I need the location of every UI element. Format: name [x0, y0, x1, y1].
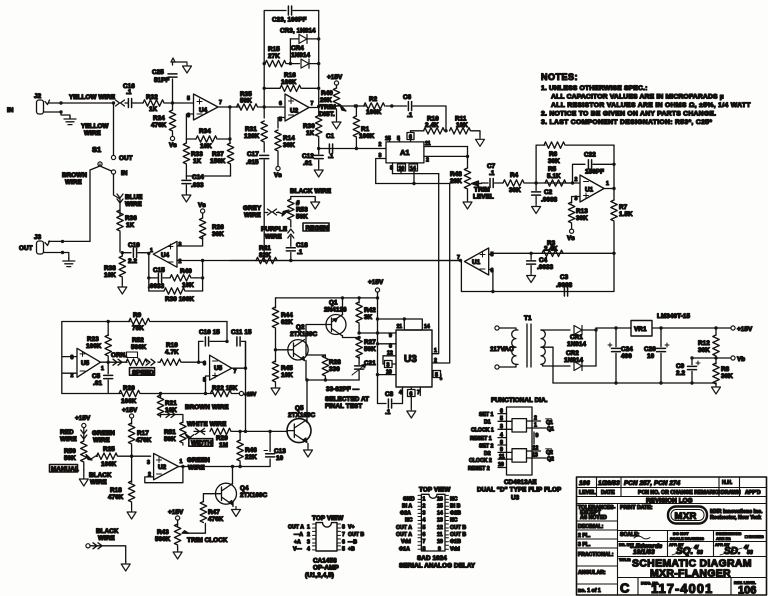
wire U2 pin5 — [278, 118, 285, 129]
label select cap — [325, 386, 369, 410]
sad pins right — [437, 495, 466, 552]
svg-text:+A: +A — [294, 540, 301, 546]
svg-text:2: 2 — [71, 373, 74, 379]
sad pins left — [396, 495, 426, 552]
svg-text:GREY: GREY — [243, 205, 262, 212]
svg-text:30K: 30K — [212, 231, 224, 238]
node C16 branch — [112, 101, 115, 104]
svg-text:BROWN: BROWN — [62, 172, 87, 179]
terminal Vs R13 — [567, 229, 575, 242]
svg-text:CR1: CR1 — [570, 334, 583, 341]
resistor R21 — [157, 394, 177, 418]
svg-text:30K: 30K — [283, 142, 295, 149]
svg-text:IN: IN — [121, 170, 128, 177]
resistor R4 — [503, 172, 536, 194]
label black wire bottom — [96, 528, 119, 542]
svg-text:R52: R52 — [132, 337, 144, 344]
pin 3 A1 — [376, 153, 386, 184]
IC U3 — [396, 330, 432, 387]
svg-text:150K: 150K — [210, 158, 226, 165]
svg-text:R49: R49 — [321, 90, 333, 97]
svg-text:.015: .015 — [246, 159, 259, 166]
svg-text:NC: NC — [450, 518, 458, 524]
resistor R47 — [200, 502, 224, 524]
trimpot R50 — [64, 441, 97, 470]
svg-text:Q2: Q2 — [547, 457, 554, 463]
resistor R41 — [256, 245, 277, 264]
label black wire manual — [89, 472, 112, 486]
wire black to pot — [291, 197, 315, 202]
resistor R45 — [272, 350, 293, 385]
svg-text:BLACK WIRE: BLACK WIRE — [290, 188, 331, 195]
svg-text:NOTES:: NOTES: — [541, 72, 578, 82]
tb rev headers — [579, 490, 761, 496]
label MANUAL — [50, 465, 79, 474]
jack J3 — [19, 234, 50, 254]
svg-text:R5: R5 — [548, 166, 557, 173]
node bus bracket — [376, 317, 379, 320]
svg-text:IN A: IN A — [402, 504, 412, 510]
wire sleeve J3 — [44, 253, 69, 260]
svg-text:1: 1 — [534, 423, 537, 429]
fd pin9 stub — [534, 432, 539, 444]
svg-text:5: 5 — [435, 373, 438, 379]
capacitor C6 — [392, 94, 446, 131]
capacitor C22 — [584, 152, 614, 176]
resistor R25 — [97, 446, 151, 468]
capacitor C13 — [240, 431, 286, 466]
capacitor C23 — [272, 6, 319, 24]
svg-text:R2: R2 — [369, 96, 378, 103]
svg-text:R6: R6 — [549, 151, 558, 158]
svg-text:1.5K: 1.5K — [619, 211, 633, 218]
svg-text:14: 14 — [410, 166, 416, 172]
resistor R19 — [158, 342, 206, 365]
terminal Vs R26 — [198, 202, 206, 213]
svg-text:ALL RESISTOR VALUES ARE IN OHM: ALL RESISTOR VALUES ARE IN OHMS Ω, ±5%, … — [551, 102, 751, 109]
svg-text:C17: C17 — [247, 151, 259, 158]
svg-text:CR2: CR2 — [566, 350, 579, 357]
resistor R13 — [568, 202, 588, 229]
ground U3 — [407, 408, 416, 418]
pin 6 U3 — [408, 387, 416, 408]
op-amp U1b — [457, 248, 494, 275]
node H2 pin14 — [412, 182, 415, 185]
wire R32 to U4 — [165, 102, 194, 104]
svg-text:R36: R36 — [125, 215, 137, 222]
svg-text:Q5: Q5 — [295, 405, 304, 412]
svg-text:WIRE: WIRE — [125, 201, 142, 208]
svg-text:11: 11 — [499, 454, 505, 460]
connector blue chev — [117, 194, 123, 203]
label purple wire — [261, 226, 287, 241]
svg-text:C8: C8 — [385, 391, 394, 398]
svg-text:ORN.: ORN. — [111, 352, 127, 359]
tb rev entries — [579, 480, 733, 487]
pin 8 A1 — [390, 163, 393, 174]
svg-text:11: 11 — [425, 141, 431, 147]
label brown wire — [62, 172, 87, 186]
svg-text:C23, 100PF: C23, 100PF — [272, 17, 307, 24]
jack J2 — [7, 93, 50, 114]
pin 6 A1 — [407, 131, 414, 142]
ground Q5 — [304, 444, 313, 458]
svg-text:1: 1 — [101, 366, 104, 372]
svg-text:TRIM: TRIM — [320, 104, 336, 111]
svg-text:SD.: SD. — [724, 546, 741, 557]
svg-text:.0033: .0033 — [537, 264, 554, 271]
tb left col — [577, 504, 618, 596]
wire purple to pot — [290, 221, 292, 227]
svg-text:+15V: +15V — [122, 407, 138, 414]
svg-text:C13: C13 — [274, 448, 286, 455]
svg-text:8: 8 — [500, 440, 503, 446]
pin 2 A1 left — [379, 142, 382, 148]
C23 box left wire — [264, 11, 286, 108]
capacitor C21 — [352, 360, 376, 380]
svg-text:100K: 100K — [86, 343, 102, 350]
wire fb verticals — [149, 254, 203, 292]
node U1b out — [459, 259, 462, 262]
node CR4 right — [317, 62, 320, 65]
svg-text:OUT A: OUT A — [396, 532, 412, 538]
svg-text:TITLE:: TITLE: — [619, 558, 631, 562]
wire CR3 branch — [289, 39, 291, 64]
svg-text:R40: R40 — [180, 268, 192, 275]
svg-text:TRIM: TRIM — [474, 187, 490, 194]
svg-text:30K: 30K — [548, 158, 560, 165]
svg-text:Q2: Q2 — [296, 324, 305, 331]
svg-text:WIRE: WIRE — [90, 479, 107, 486]
node R46 bottom — [238, 465, 241, 468]
svg-text:DECIMAL:: DECIMAL: — [578, 524, 604, 530]
wire pin5 — [206, 376, 210, 394]
svg-text:IN: IN — [7, 107, 14, 114]
wire sleeve J2 — [44, 112, 71, 118]
svg-text:VR1: VR1 — [634, 326, 647, 333]
logo MXR — [668, 507, 707, 524]
svg-text:REGEN: REGEN — [306, 225, 329, 232]
svg-text:150PF: 150PF — [585, 169, 604, 176]
terminal Vs R14 — [274, 166, 282, 179]
svg-text:4: 4 — [399, 390, 402, 396]
svg-text:□ INCHES: □ INCHES — [745, 534, 764, 539]
svg-text:C2: C2 — [544, 189, 553, 196]
svg-text:U4: U4 — [199, 107, 208, 114]
svg-text:100K: 100K — [101, 461, 117, 468]
svg-text:1: 1 — [307, 525, 310, 531]
svg-text:2TX109C: 2TX109C — [288, 412, 316, 419]
node CR join — [594, 328, 597, 331]
wire S1 common brown — [90, 164, 100, 241]
svg-text:U5: U5 — [214, 365, 223, 372]
pin 8 U3 — [376, 342, 396, 349]
node U4a out — [228, 105, 231, 108]
svg-text:OUT: OUT — [19, 245, 33, 252]
ground R43 — [173, 549, 182, 559]
ground C12 — [314, 167, 323, 177]
svg-text:6: 6 — [342, 540, 345, 546]
svg-text:470K: 470K — [151, 122, 167, 129]
svg-text:BLUE: BLUE — [125, 194, 143, 201]
label blue wire — [125, 194, 143, 208]
node R23 top — [107, 320, 110, 323]
svg-text:Vs: Vs — [567, 235, 575, 242]
svg-text:62K: 62K — [281, 319, 293, 326]
svg-text:PURPLE: PURPLE — [261, 226, 287, 233]
svg-text:3: 3 — [147, 460, 150, 466]
ground R18 — [127, 509, 136, 519]
svg-text:16K: 16K — [165, 407, 177, 414]
svg-text:OUT B: OUT B — [450, 532, 466, 538]
svg-text:PCN NO. OR CHANGE REMARKS: PCN NO. OR CHANGE REMARKS — [638, 490, 721, 496]
diode CR3 — [290, 34, 318, 43]
node U1a out — [612, 187, 615, 190]
resistor R35 — [237, 91, 258, 110]
diode CR2 — [564, 350, 596, 371]
svg-text:R37: R37 — [212, 151, 224, 158]
capacitor C24 — [608, 328, 633, 383]
svg-text:1/20/83: 1/20/83 — [598, 480, 620, 487]
wire R27 bottom — [358, 357, 360, 362]
svg-text:J3: J3 — [34, 234, 42, 241]
node C20 — [659, 326, 662, 329]
svg-text:Q1: Q1 — [329, 300, 338, 307]
capacitor C7 — [482, 163, 503, 188]
node C17 rail — [263, 259, 266, 262]
resistor R7 — [611, 200, 633, 253]
capacitor C20 — [644, 328, 669, 383]
resistor R12 — [698, 328, 719, 358]
svg-text:3: 3 — [500, 424, 503, 430]
node R29 out — [244, 430, 247, 433]
svg-text:500K: 500K — [155, 536, 171, 543]
node U1a pin2 — [571, 181, 574, 184]
resistor R22 — [210, 385, 239, 397]
svg-text:FINAL TEST: FINAL TEST — [325, 403, 362, 410]
svg-text:SCALE:: SCALE: — [620, 532, 640, 538]
ground R48 — [463, 199, 472, 209]
svg-text:GND: GND — [403, 497, 415, 503]
svg-text:C20: C20 — [644, 346, 656, 353]
capacitor C19 — [122, 242, 148, 265]
node R21 — [159, 392, 162, 395]
ca pins left — [288, 524, 316, 553]
wire C10 up — [199, 341, 203, 362]
svg-text:FUNCTIONAL DIA.: FUNCTIONAL DIA. — [491, 397, 548, 404]
node R24 — [171, 101, 174, 104]
op-amp U2 — [279, 94, 314, 123]
svg-text:WIRE: WIRE — [93, 437, 110, 444]
resistor R11 — [450, 116, 481, 137]
wire R28 top — [306, 342, 325, 355]
wire Q1 base Q2 coll — [306, 325, 322, 343]
svg-text:1: 1 — [606, 181, 609, 187]
svg-text:3: 3 — [179, 242, 182, 248]
wire Q4 base — [203, 494, 211, 502]
node bus top — [376, 296, 379, 299]
svg-text:470K: 470K — [208, 516, 224, 523]
capacitor C5 — [92, 362, 113, 393]
LFO frame wires — [62, 322, 130, 394]
ground J2 — [64, 116, 76, 125]
node pin2 fb — [201, 259, 204, 262]
svg-text:3K: 3K — [364, 314, 373, 321]
resistor R15 — [264, 46, 290, 67]
resistor R38 — [119, 252, 125, 284]
wire R42 to pin9 — [359, 332, 377, 334]
svg-text:CR4: CR4 — [291, 45, 304, 52]
svg-text:U5: U5 — [81, 360, 90, 367]
svg-text:50K: 50K — [240, 98, 252, 105]
dc top rail — [596, 327, 731, 329]
fd reset1 — [470, 433, 507, 443]
svg-text:C5: C5 — [92, 373, 101, 380]
pin 10 U3 — [376, 370, 396, 377]
svg-text:R24: R24 — [153, 115, 165, 122]
svg-text:R19: R19 — [166, 342, 178, 349]
svg-text:2: 2 — [534, 416, 537, 422]
fd q1bar — [527, 416, 554, 427]
svg-text:DRAWN: DRAWN — [721, 490, 741, 496]
node bracket U3 — [403, 317, 406, 320]
capacitor C8 — [378, 391, 403, 416]
fd ff2 box — [512, 449, 527, 462]
wire U2 out — [309, 106, 366, 108]
svg-text:10K: 10K — [456, 122, 468, 129]
svg-text:10/1/83: 10/1/83 — [633, 549, 655, 556]
wire black bottom — [86, 543, 126, 562]
svg-text:R44: R44 — [281, 312, 293, 319]
svg-text:R32: R32 — [146, 94, 158, 101]
svg-text:C19: C19 — [128, 242, 140, 249]
ground R49 — [332, 119, 341, 129]
svg-text:6: 6 — [423, 532, 426, 538]
svg-text:12: 12 — [437, 525, 443, 531]
ground R11 — [476, 136, 485, 146]
resistor R27 — [356, 337, 376, 359]
transformer T1 — [490, 315, 553, 369]
fd reset2 — [468, 462, 507, 472]
wire brown to width — [161, 415, 183, 423]
tb revision row lines — [577, 477, 767, 504]
svg-text:R39 100K: R39 100K — [165, 296, 195, 303]
svg-text:R1: R1 — [361, 126, 370, 133]
svg-text:2: 2 — [426, 158, 429, 164]
svg-text:10K: 10K — [281, 372, 293, 379]
svg-text:4: 4 — [423, 518, 426, 524]
resistor R14 — [275, 130, 295, 166]
diode CR1 — [567, 326, 596, 349]
svg-text:7: 7 — [219, 100, 222, 106]
capacitor C3 — [556, 274, 573, 296]
label grey wire — [243, 205, 280, 219]
dc bottom rail — [553, 382, 716, 384]
svg-text:3: 3 — [71, 355, 74, 361]
op-amp U5a — [71, 348, 105, 379]
capacitor C14 — [182, 174, 204, 192]
svg-text:C24: C24 — [621, 346, 633, 353]
svg-text:C15: C15 — [153, 267, 165, 274]
svg-text:2N4126: 2N4126 — [324, 307, 347, 314]
capacitor C18 — [286, 236, 308, 260]
fd outer box — [507, 407, 533, 475]
svg-text:3: 3 — [307, 540, 310, 546]
resistor R2 — [364, 96, 392, 116]
resistor R23 — [86, 322, 111, 363]
svg-text:Φ1B: Φ1B — [450, 539, 461, 545]
svg-text:SET 2: SET 2 — [479, 444, 494, 450]
svg-text:1K: 1K — [193, 158, 202, 165]
svg-text:2.4K: 2.4K — [544, 246, 558, 253]
svg-text:U1: U1 — [585, 187, 594, 194]
svg-text:REVISION LOG: REVISION LOG — [646, 498, 693, 505]
node R2 right — [390, 104, 393, 107]
resistor R39 — [149, 288, 203, 303]
svg-text:75K: 75K — [132, 325, 144, 332]
svg-text:C3: C3 — [560, 274, 569, 281]
svg-text:BROWN WIRE: BROWN WIRE — [185, 404, 229, 411]
svg-text:C10 15: C10 15 — [199, 329, 220, 336]
svg-text:R23: R23 — [87, 336, 99, 343]
svg-text:CLOCK 1: CLOCK 1 — [471, 428, 494, 434]
svg-text:D2: D2 — [484, 451, 491, 457]
regulator VR1 — [631, 313, 690, 336]
svg-text:470K: 470K — [136, 437, 152, 444]
svg-text:V+: V+ — [348, 525, 355, 531]
svg-text:Q1: Q1 — [547, 427, 554, 433]
svg-text:5: 5 — [491, 252, 494, 258]
resistor R24 — [151, 103, 176, 136]
op-amp U1a — [575, 175, 610, 202]
svg-text:6: 6 — [203, 361, 206, 367]
node C23 left leg — [263, 105, 266, 108]
wire sec top — [541, 329, 570, 331]
node rail C9 — [690, 381, 693, 384]
svg-text:SQ.: SQ. — [676, 546, 693, 557]
svg-text:.0068: .0068 — [541, 197, 558, 204]
pin 4 U3 — [399, 387, 403, 404]
svg-text:R50: R50 — [64, 448, 76, 455]
node C23 left R15 — [263, 62, 266, 65]
svg-text:2: 2 — [307, 532, 310, 538]
wire U1a right vert — [613, 145, 615, 200]
svg-text:D1: D1 — [484, 420, 491, 426]
node R30 bottom — [317, 147, 320, 150]
pin 7 U3 — [417, 387, 420, 396]
resistor R40 — [163, 268, 196, 289]
svg-text:U2: U2 — [290, 108, 299, 115]
wire C22 branch — [573, 164, 586, 183]
svg-text:R33: R33 — [191, 151, 203, 158]
svg-text:ARE IN:: ARE IN: — [716, 536, 731, 541]
svg-text:SERIAL ANALOG DELAY: SERIAL ANALOG DELAY — [399, 563, 476, 570]
svg-text:2TX109C: 2TX109C — [240, 492, 268, 499]
svg-text:RED: RED — [60, 429, 74, 436]
trimpot R52 — [126, 337, 147, 365]
svg-text:GREEN: GREEN — [187, 457, 210, 464]
svg-text:7: 7 — [342, 532, 345, 538]
node out R23 — [107, 361, 110, 364]
resistor R20 — [119, 385, 140, 405]
svg-text:3: 3 — [387, 363, 390, 369]
capacitor C11 — [231, 329, 252, 368]
wire R20 to R22 — [141, 393, 212, 395]
svg-text:C6: C6 — [403, 94, 412, 101]
svg-text:8: 8 — [423, 547, 426, 553]
node R3 right — [612, 252, 615, 255]
svg-text:5: 5 — [397, 136, 400, 142]
